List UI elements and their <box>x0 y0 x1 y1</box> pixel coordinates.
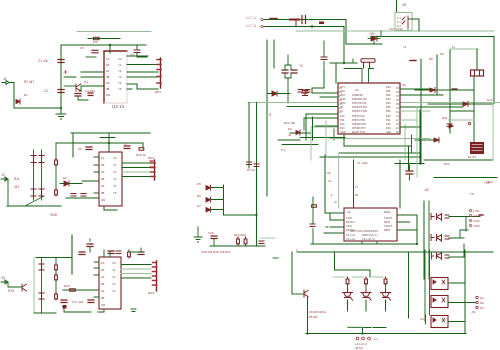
svg-text:Y1: Y1 <box>113 163 117 167</box>
resistor R10 <box>139 148 144 151</box>
wire x408 vert <box>408 146 410 171</box>
svg-text:Y5: Y5 <box>118 87 122 91</box>
capacitor C3 wire <box>78 96 88 100</box>
wire y215 <box>224 214 257 216</box>
capacitor C15 <box>39 264 44 270</box>
capacitor C10 <box>81 194 86 197</box>
diode D14 <box>449 124 453 128</box>
triac driver 1 light stub <box>333 276 345 278</box>
resistor R24 <box>237 237 240 245</box>
wire net86 <box>81 86 104 91</box>
wire y90 <box>415 89 474 91</box>
wire U1 right pin y95 <box>400 94 443 96</box>
wire b2 into IC pin <box>82 180 99 182</box>
wire light x311 <box>310 127 312 160</box>
wire U1 bottom x344 <box>344 134 411 146</box>
wire dark y137 <box>300 137 345 139</box>
capacitor C33 <box>406 171 413 174</box>
IC U1 box <box>338 83 400 134</box>
svg-text:XT2: XT2 <box>340 89 345 93</box>
text right rows <box>469 209 471 211</box>
svg-text:D13: D13 <box>487 98 493 102</box>
svg-text:3B: 3B <box>101 191 105 195</box>
wire light y238 <box>260 237 275 239</box>
svg-text:GND: GND <box>50 213 58 217</box>
svg-text:RST: RST <box>340 93 346 97</box>
wire x324 top <box>323 41 325 52</box>
wire dark y140 <box>278 139 300 141</box>
svg-text:C6: C6 <box>78 147 82 151</box>
wire U1 right pin y107 <box>400 106 463 108</box>
wire vert x256 low <box>256 173 258 246</box>
wire b2 x56 <box>55 143 57 188</box>
IC U5 box <box>99 257 121 309</box>
wire U3 vcc <box>109 45 111 53</box>
transistor pair Q7 <box>437 253 442 260</box>
svg-text:1B: 1B <box>106 63 110 67</box>
svg-text:ALE: ALE <box>386 130 391 134</box>
opto U9 inner <box>433 318 445 322</box>
wire y104 <box>428 103 493 105</box>
svg-text:+5V: +5V <box>369 32 376 36</box>
svg-text:U2: U2 <box>347 210 351 214</box>
svg-text:P05: P05 <box>386 105 391 109</box>
svg-text:3A: 3A <box>106 81 110 85</box>
wire U5 out3 <box>121 273 151 275</box>
capacitor C8b <box>39 189 44 196</box>
wire b2 rail2 <box>56 142 143 144</box>
wire bus B <box>264 26 344 28</box>
crystal Y1 body <box>361 59 375 63</box>
wire x292 vert <box>291 252 293 294</box>
svg-text:RN1: RN1 <box>155 90 161 94</box>
svg-text:BT136: BT136 <box>309 315 318 319</box>
diode D15 <box>434 138 439 143</box>
node VCC2 circle <box>261 25 263 27</box>
svg-text:+12: +12 <box>484 181 490 185</box>
wire U4 bottom stub <box>104 206 117 210</box>
resistor R1 <box>94 37 100 40</box>
wire U3 out5 stub <box>127 88 132 90</box>
resistor R20 value label <box>319 22 324 25</box>
wire u2 right pin3 <box>397 229 417 231</box>
wire net45 top <box>61 44 146 46</box>
svg-text:INT0: INT0 <box>340 97 346 101</box>
capacitor C20 <box>302 16 306 24</box>
svg-text:=1: =1 <box>403 45 407 49</box>
wire x412 vert <box>411 135 413 153</box>
capacitor C17 <box>61 300 67 303</box>
svg-text:2B: 2B <box>106 75 110 79</box>
svg-text:5V 3V: 5V 3V <box>247 168 255 172</box>
capacitor C14 <box>138 252 144 255</box>
wire U5 out1 <box>121 264 151 266</box>
svg-text:1B: 1B <box>101 163 105 167</box>
triac T3 <box>381 289 391 301</box>
relay K1 inner <box>472 145 482 151</box>
connector J3 pin <box>1 280 8 284</box>
transistor pair Q7 cap <box>445 255 449 258</box>
svg-text:Y4: Y4 <box>113 184 117 188</box>
svg-text:T2OUT: T2OUT <box>384 224 393 228</box>
svg-text:GN: GN <box>101 198 105 202</box>
diode D7 <box>206 207 211 212</box>
svg-text:VCC-B: VCC-B <box>246 24 256 28</box>
wire U1 right pin y89 <box>400 88 430 90</box>
svg-text:P23: P23 <box>386 126 391 130</box>
junction b2 <box>108 142 110 144</box>
svg-text:Y3: Y3 <box>118 75 122 79</box>
capacitor C5 lead wires <box>137 45 147 57</box>
opto U8 inner <box>433 298 445 302</box>
svg-text:N3: N3 <box>480 306 484 310</box>
wire q7 out <box>449 244 464 257</box>
capacitor C18 <box>88 300 94 303</box>
ground b3 <box>131 309 136 312</box>
wire x465 vert <box>464 250 466 334</box>
wire light x417 <box>416 107 418 177</box>
wire J9 top feed <box>396 0 398 13</box>
connector J11 circles <box>476 296 478 298</box>
triac driver 2 resistor <box>365 277 368 285</box>
svg-text:D5: D5 <box>197 182 201 186</box>
wire busA-busB link <box>295 20 297 27</box>
wire x425 stub <box>425 315 427 324</box>
fuse F1 on bus A <box>290 19 299 21</box>
wire U1 right pin y127 <box>400 126 420 128</box>
svg-text:Y2: Y2 <box>118 69 122 73</box>
wire q5 out <box>449 217 480 232</box>
wire drop x437 <box>436 55 438 95</box>
wire J9 pin1 <box>409 19 419 31</box>
svg-text:10k: 10k <box>93 40 98 44</box>
svg-text:GND T2OUT R2IN R2OUT: GND T2OUT R2IN R2OUT <box>350 230 379 233</box>
transistor pair Q7b mark <box>432 253 434 259</box>
tick mark <box>273 257 278 259</box>
svg-text:P06: P06 <box>386 109 391 113</box>
svg-text:C2+ C2- V-: C2+ C2- V- <box>362 237 375 241</box>
capacitor C22 <box>305 90 310 93</box>
wire x417 vert <box>416 215 418 244</box>
svg-text:P02: P02 <box>386 93 391 97</box>
svg-text:Y1: Y1 <box>112 268 116 272</box>
capacitor C24 inline <box>247 162 252 165</box>
wire U3 out3 <box>127 76 158 78</box>
svg-text:1B: 1B <box>101 268 105 272</box>
resistor array RN1 pads <box>157 60 161 84</box>
svg-text:D9: D9 <box>440 52 444 56</box>
svg-text:P01: P01 <box>386 89 391 93</box>
wire D2 out <box>60 183 82 185</box>
svg-text:1 IN1: 1 IN1 <box>473 209 480 213</box>
svg-text:C26: C26 <box>208 231 214 235</box>
connector J2 pin <box>1 177 8 181</box>
capacitor C16 <box>39 293 44 299</box>
wire b3 y252 <box>129 248 141 252</box>
capacitor C29 <box>321 57 327 60</box>
capacitor C26 wire <box>213 239 215 247</box>
wire light rail right <box>296 30 494 32</box>
triac driver 2 light stub <box>352 276 364 278</box>
wire vert x61 <box>60 45 62 114</box>
resistor array RN3 pads <box>153 263 157 286</box>
wire b2 bottom rail <box>7 205 61 207</box>
svg-text:Y2: Y2 <box>112 275 116 279</box>
wire x408 drop <box>408 252 410 318</box>
svg-text:3B: 3B <box>101 296 105 300</box>
wire u2 right pin2 <box>397 221 410 223</box>
svg-text:o o: o o <box>374 337 379 341</box>
capacitor C21 <box>298 90 303 93</box>
svg-text:D7: D7 <box>197 204 201 208</box>
svg-text:J3: J3 <box>1 276 5 280</box>
capacitor C40 <box>92 50 98 53</box>
resistor array RN3 bus <box>156 261 158 291</box>
svg-text:5V: 5V <box>268 113 272 117</box>
svg-text:P36/WR P06: P36/WR P06 <box>352 123 366 126</box>
wire y63 <box>330 62 357 64</box>
IC U3 box <box>104 51 127 103</box>
diode D3 wire <box>267 93 290 95</box>
svg-text:J8 AC: J8 AC <box>355 346 364 350</box>
svg-text:P31/TXD P01: P31/TXD P01 <box>352 102 367 105</box>
wire U5 bottom stub <box>98 309 104 312</box>
wire light y138 <box>330 138 430 140</box>
wire b2 drop x143 <box>142 143 144 148</box>
svg-text:J10: J10 <box>424 188 429 192</box>
svg-text:T1: T1 <box>355 185 359 189</box>
svg-text:R24 R25: R24 R25 <box>234 233 246 237</box>
svg-text:2): 2) <box>334 200 337 204</box>
wire U1 bottom y157 <box>320 156 420 158</box>
wire u7 out <box>448 282 465 284</box>
svg-text:L1: L1 <box>328 179 332 183</box>
svg-text:VCC-A: VCC-A <box>246 16 257 20</box>
wire x474 vert <box>473 90 475 142</box>
resistor R19 <box>70 289 76 292</box>
svg-text:Y4: Y4 <box>112 289 116 293</box>
wire U1 left pin y114 <box>306 114 338 140</box>
svg-text:J2: J2 <box>1 173 5 177</box>
svg-text:Y5: Y5 <box>113 191 117 195</box>
wire b2 drop x73 <box>72 133 74 157</box>
wire dark y106 <box>287 106 338 108</box>
crystal X1 body <box>471 70 484 76</box>
wire u9 out <box>448 321 465 323</box>
svg-text:3A: 3A <box>101 184 105 188</box>
crystal Y2 wires <box>285 65 291 78</box>
svg-text:3B: 3B <box>106 87 110 91</box>
transistor pair Q6 <box>431 235 442 242</box>
resistor array RN2 bus <box>154 160 156 180</box>
svg-text:P04: P04 <box>386 101 391 105</box>
capacitor C13 <box>108 251 114 254</box>
transistor Q2 <box>31 156 36 163</box>
transistor Q2b <box>39 156 44 163</box>
wire light y127 <box>311 126 338 128</box>
svg-text:1A: 1A <box>101 261 105 265</box>
light green y327 <box>347 326 364 328</box>
svg-text:C9: C9 <box>327 171 331 175</box>
crystal X1 inner <box>475 70 480 76</box>
crystal Y2 caps <box>282 70 297 73</box>
svg-text:4k7: 4k7 <box>14 185 19 189</box>
capacitor C11 <box>87 244 93 247</box>
junction at J1 bus <box>60 107 62 109</box>
resistor R1 lead wire <box>88 38 120 40</box>
wire rail y252 <box>297 251 493 253</box>
capacitor C34 <box>447 124 452 127</box>
wire light rail y102 <box>248 102 338 104</box>
junction at bottom rail a <box>361 332 363 334</box>
connector J9 body <box>395 13 412 31</box>
svg-text:2A: 2A <box>101 170 105 174</box>
wire b3 y312 <box>64 306 91 312</box>
wire U5 out2 <box>121 268 151 270</box>
diode D10 <box>410 60 416 62</box>
wire y160 <box>424 159 493 161</box>
svg-text:K1 5V: K1 5V <box>468 155 476 159</box>
svg-text:1x: 1x <box>452 45 456 49</box>
wire b3 rail top <box>36 257 72 259</box>
wire y163 <box>395 163 424 165</box>
wire q6 out <box>449 230 468 238</box>
triac T1 <box>343 289 353 301</box>
wire U4 out4 <box>122 176 152 178</box>
svg-text:T2IN: T2IN <box>346 224 352 228</box>
svg-text:U6 MOC3041: U6 MOC3041 <box>309 310 327 314</box>
ground center <box>194 227 202 242</box>
svg-text:C2: C2 <box>44 89 48 93</box>
wire x424 vert <box>423 201 425 279</box>
svg-text:GN: GN <box>101 303 105 307</box>
svg-text:U1: U1 <box>355 88 359 92</box>
resistor R23 wires <box>290 132 311 134</box>
triac T2 wire down <box>365 300 367 311</box>
svg-text:3 IN3: 3 IN3 <box>473 219 480 223</box>
capacitor C27 <box>259 241 264 244</box>
wire q1 collector <box>81 71 104 73</box>
triac driver 3 resistor <box>384 277 387 285</box>
svg-text:R2IN: R2IN <box>384 228 390 232</box>
wire b2 rail top2 <box>100 137 115 139</box>
svg-text:Y2: Y2 <box>299 64 303 68</box>
svg-text:Y1 12M: Y1 12M <box>357 161 368 165</box>
svg-text:C28 104 R26 10k R27: C28 104 R26 10k R27 <box>201 250 231 254</box>
wire bus A <box>264 19 346 21</box>
svg-text:R19: R19 <box>64 284 70 288</box>
svg-text:2A: 2A <box>101 275 105 279</box>
transistor Q3 <box>22 284 27 291</box>
opto U7 inner <box>433 280 445 284</box>
wire light rail left <box>77 31 151 33</box>
svg-text:P32/INT0 P02: P32/INT0 P02 <box>352 106 368 109</box>
wire bus B drop <box>343 27 345 64</box>
crystal Y1 leads <box>364 63 370 69</box>
transistor Q1 <box>76 84 81 91</box>
wire y246 <box>210 245 265 247</box>
capacitor C11 wire <box>89 239 91 252</box>
wire b2 drop x109 <box>108 133 110 152</box>
svg-text:R9: R9 <box>429 57 433 61</box>
capacitor C1 plus <box>64 71 67 74</box>
wire u2 pin4 <box>324 232 344 234</box>
wire b3 into IC <box>63 289 99 291</box>
wire b3 light vert <box>41 258 43 314</box>
wire U1 right pin y120 <box>400 119 417 121</box>
capacitor C30 <box>302 91 308 94</box>
svg-text:R1OUT: R1OUT <box>346 220 355 224</box>
wire light x405 <box>404 124 406 160</box>
svg-text:2A: 2A <box>106 69 110 73</box>
wire U1 left pin y107 <box>295 106 338 108</box>
wire net44 <box>346 43 382 45</box>
connector circle right <box>468 122 471 125</box>
diode D21 on bus A <box>270 18 277 20</box>
svg-text:Q1: Q1 <box>84 80 88 84</box>
opto U9 box <box>431 316 448 328</box>
wire U2 bottom stub b <box>376 241 378 244</box>
svg-text:RN2: RN2 <box>148 156 154 160</box>
triac driver 1 resistor <box>346 277 349 285</box>
svg-text:N1: N1 <box>480 296 484 300</box>
svg-text:Y3: Y3 <box>113 177 117 181</box>
diode D1 <box>16 99 20 104</box>
svg-text:R22 10k: R22 10k <box>284 121 296 125</box>
wire drop x477 <box>476 49 478 70</box>
svg-text:R1: R1 <box>355 193 359 197</box>
wire x353 stub <box>352 59 354 63</box>
diode D20 <box>368 38 380 40</box>
node VCC1 circle <box>261 18 263 20</box>
capacitor C32 <box>310 224 315 227</box>
capacitor C26 <box>211 236 217 239</box>
resistor R12 <box>55 158 58 166</box>
svg-text:R2 4k7: R2 4k7 <box>24 80 34 84</box>
triac T3 wire down <box>385 300 387 311</box>
wire D20 drop <box>373 41 375 44</box>
wire y327 seg2 <box>373 327 386 329</box>
wire b2 vert x41 <box>41 150 43 200</box>
junction at crystal feed <box>343 62 345 64</box>
svg-text:3A: 3A <box>101 289 105 293</box>
svg-text:Y2: Y2 <box>113 170 117 174</box>
wire U1 bottom y153 <box>339 152 420 154</box>
svg-text:P10: P10 <box>340 114 345 118</box>
junction on bus B <box>311 25 313 27</box>
svg-text:P33/INT1 P03: P33/INT1 P03 <box>352 110 368 113</box>
svg-text:VC: VC <box>112 261 116 265</box>
capacitor C19 pad <box>63 305 67 309</box>
triac T1 wire down <box>347 300 349 311</box>
wire b3 x56 <box>55 258 57 293</box>
wire U4 left stubs <box>94 157 99 193</box>
svg-text:P35/T1 P05: P35/T1 P05 <box>352 119 365 122</box>
capacitor C1 <box>58 60 64 63</box>
svg-text:G1: G1 <box>420 317 424 321</box>
wire drop x450 <box>449 49 451 133</box>
wire vert x334 low <box>333 129 335 140</box>
capacitor C6 <box>86 147 92 150</box>
wire q4 down <box>307 297 309 334</box>
svg-text:5.1: 5.1 <box>281 148 286 152</box>
resistor R17 <box>55 273 58 281</box>
resistor R30 <box>312 205 317 208</box>
wire y140 <box>415 139 434 141</box>
svg-text:Y1: Y1 <box>118 63 122 67</box>
svg-text:R11: R11 <box>14 177 20 181</box>
svg-text:1A: 1A <box>106 57 110 61</box>
